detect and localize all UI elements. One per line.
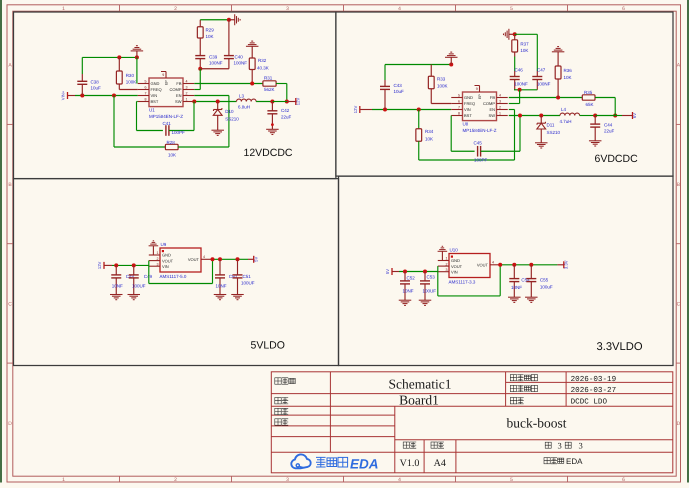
wire input rail (104, 264, 112, 266)
svg-text:100K: 100K (126, 80, 137, 85)
svg-text:10NF: 10NF (112, 284, 123, 289)
svg-text:EDA: EDA (350, 456, 379, 471)
ground above R32 (246, 41, 259, 46)
node output junction (613, 114, 617, 118)
net flag 12V output (295, 98, 297, 105)
svg-text:SS210: SS210 (225, 117, 239, 122)
wire output (595, 115, 615, 117)
label page 3 of 3 (545, 442, 551, 448)
ground under C44 (589, 141, 602, 146)
svg-text:4: 4 (492, 261, 494, 265)
svg-text:BST: BST (464, 113, 472, 118)
wire FB net (194, 83, 263, 85)
wire COMP net (194, 89, 200, 91)
capacitor C41 bootstrap (137, 101, 138, 103)
wire R34 to EN loop (419, 159, 515, 161)
svg-text:100uF: 100uF (540, 285, 553, 290)
svg-text:BST: BST (151, 99, 159, 104)
svg-text:C: C (677, 301, 681, 307)
svg-text:5V: 5V (385, 269, 390, 274)
ground sideways top (229, 14, 240, 25)
node C50 tap (218, 257, 222, 261)
node C53 tap (423, 270, 427, 274)
capacitor C52 (404, 272, 406, 281)
node GND bracket (135, 55, 139, 59)
svg-text:Schematic1: Schematic1 (389, 377, 452, 392)
wire SW net (194, 101, 236, 103)
svg-text:VIN: VIN (151, 93, 158, 98)
svg-text:6: 6 (622, 477, 625, 483)
ground above R36 (552, 47, 565, 52)
op-amp U8 MP1584EN-LF-Z (463, 92, 497, 121)
svg-text:D: D (8, 421, 12, 427)
svg-text:100UF: 100UF (132, 284, 146, 289)
node C45 tap (518, 114, 522, 118)
svg-text:65K: 65K (586, 102, 594, 107)
inductor L3 (237, 99, 257, 101)
svg-text:A4: A4 (434, 458, 446, 469)
svg-text:FREQ: FREQ (464, 101, 475, 106)
svg-text:R29: R29 (206, 28, 215, 33)
net flag VIN input (67, 92, 69, 99)
svg-text:VOUT: VOUT (188, 257, 200, 262)
capacitor C51 (237, 259, 239, 275)
capacitor C45 bootstrap (450, 116, 452, 152)
svg-text:2: 2 (174, 6, 177, 12)
svg-text:V1.0: V1.0 (400, 458, 420, 469)
svg-text:GND: GND (464, 95, 473, 100)
wire R29 top to gnd (200, 19, 229, 21)
node SW (192, 100, 196, 104)
svg-text:3.3V: 3.3V (563, 260, 568, 269)
ground under C55 (525, 297, 538, 302)
svg-text:3: 3 (579, 441, 583, 451)
svg-text:EN: EN (489, 107, 495, 112)
sheet area box bottom-right (339, 176, 674, 365)
svg-text:100NF: 100NF (514, 81, 528, 86)
svg-text:R34: R34 (425, 129, 434, 134)
node VIN junction C38 (80, 94, 84, 98)
svg-text:GND: GND (151, 81, 160, 86)
svg-text:C47: C47 (537, 68, 546, 73)
svg-text:C41: C41 (163, 121, 172, 126)
svg-text:C49: C49 (144, 274, 153, 279)
node R30 top (117, 55, 121, 59)
node C48 tap (114, 263, 118, 267)
capacitor C40 (228, 20, 230, 56)
svg-text:R28: R28 (167, 140, 176, 145)
svg-text:5: 5 (458, 94, 460, 98)
diode D10 SS210 (217, 102, 219, 110)
svg-text:SS210: SS210 (547, 130, 561, 135)
sheet area box top-right (336, 12, 673, 176)
svg-text:3: 3 (157, 262, 159, 266)
svg-text:2: 2 (446, 262, 448, 266)
ground under C53 (419, 300, 432, 305)
node D11 tap (539, 114, 543, 118)
svg-text:C43: C43 (394, 83, 403, 88)
svg-text:5VLDO: 5VLDO (251, 339, 285, 351)
capacitor C50 (219, 259, 221, 275)
wire FB net (509, 97, 583, 99)
svg-text:2: 2 (157, 257, 159, 261)
net flag 5V output (253, 256, 255, 263)
ground under C49 (128, 295, 141, 300)
svg-text:6.8uH: 6.8uH (238, 105, 250, 110)
svg-text:562K: 562K (264, 87, 275, 92)
wire GND pin drop (136, 57, 138, 83)
resistor R30 (118, 57, 120, 71)
net flag 12V input (359, 106, 361, 113)
node C52 tap (403, 270, 407, 274)
svg-text:3: 3 (286, 6, 289, 12)
svg-text:3: 3 (446, 268, 448, 272)
resistor R29 (199, 20, 201, 27)
resistor R31 (263, 81, 276, 86)
svg-text:8: 8 (458, 112, 460, 116)
svg-text:9: 9 (476, 87, 478, 91)
svg-text:6V: 6V (632, 113, 637, 118)
svg-text:2026-03-27: 2026-03-27 (571, 386, 617, 395)
wire VOUT feedback loop (437, 266, 439, 296)
title block outline (271, 372, 673, 473)
capacitor C55 (530, 265, 532, 279)
svg-text:10K: 10K (206, 34, 214, 39)
svg-text:4: 4 (203, 255, 205, 259)
svg-text:SW: SW (489, 113, 496, 118)
ground under C50 (214, 295, 227, 300)
svg-text:D: D (677, 421, 681, 427)
wire input rail (392, 271, 399, 273)
logo JLC EDA cloud (291, 454, 310, 468)
wire C46/C47 bottoms (514, 89, 537, 91)
label gengxin riqi (updated date) (510, 385, 537, 391)
net flag 5V input (391, 268, 393, 275)
svg-text:10NF: 10NF (403, 289, 414, 294)
svg-text:7: 7 (458, 106, 460, 110)
svg-text:EP: EP (478, 94, 482, 99)
svg-text:EP: EP (165, 80, 169, 85)
wire SW net (509, 115, 560, 117)
svg-text:C: C (8, 301, 12, 307)
label yuanlitu (schematic) (275, 378, 295, 384)
svg-text:R31: R31 (264, 76, 273, 81)
svg-text:4: 4 (186, 80, 188, 84)
svg-text:COMP: COMP (170, 87, 182, 92)
svg-text:C52: C52 (407, 276, 416, 281)
node C54 tap (512, 263, 516, 267)
svg-text:VOUT: VOUT (451, 264, 463, 269)
label banben (version) (403, 442, 416, 448)
capacitor C38 (81, 57, 83, 74)
svg-text:VOUT: VOUT (162, 258, 174, 263)
svg-text:7: 7 (145, 92, 147, 96)
node C42 tap (270, 100, 274, 104)
svg-text:4: 4 (398, 6, 401, 12)
svg-text:10K: 10K (168, 153, 176, 158)
svg-text:5V: 5V (253, 257, 258, 262)
svg-text:1: 1 (62, 6, 65, 12)
op-amp U10 AMS1117-3.3 (449, 254, 490, 278)
ground (earth) top-left (136, 51, 138, 58)
node R37 top (513, 32, 517, 36)
svg-text:VOUT: VOUT (477, 263, 489, 268)
svg-text:10NF: 10NF (511, 285, 522, 290)
left page edge strip (0, 0, 2, 483)
svg-text:10K: 10K (425, 137, 433, 142)
diode D11 SS210 (540, 116, 542, 124)
svg-text:C53: C53 (427, 275, 436, 280)
sheet area box bottom-left (14, 179, 339, 366)
svg-text:12V: 12V (295, 98, 300, 106)
svg-text:5: 5 (145, 80, 147, 84)
resistor R36 (555, 66, 561, 79)
op-amp U9 AMS1117-5.0 (160, 248, 201, 272)
svg-text:C55: C55 (540, 278, 549, 283)
resistor R35 (582, 95, 595, 100)
capacitor C48 (115, 265, 117, 275)
svg-text:C38: C38 (91, 80, 100, 85)
svg-text:VIN: VIN (162, 264, 169, 269)
ground under C52 (399, 300, 412, 305)
sheet area box top-left (14, 12, 336, 179)
svg-text:COMP: COMP (483, 101, 495, 106)
svg-text:C40: C40 (235, 55, 244, 60)
svg-text:U1: U1 (149, 108, 155, 113)
svg-text:12VDCDC: 12VDCDC (244, 147, 293, 159)
svg-text:5: 5 (510, 6, 513, 12)
capacitor C39 (195, 55, 205, 57)
capacitor C43 (384, 65, 386, 81)
svg-text:U10: U10 (450, 248, 459, 253)
svg-text:U8: U8 (463, 122, 469, 127)
wire output rail (500, 264, 557, 266)
svg-text:100NF: 100NF (537, 81, 551, 86)
svg-text:C46: C46 (515, 68, 524, 73)
svg-text:R30: R30 (126, 73, 135, 78)
svg-text:100UF: 100UF (423, 289, 437, 294)
resistor R34 (418, 110, 420, 129)
node C51 tap (236, 257, 240, 261)
right page edge strip (687, 0, 689, 483)
svg-text:10NF: 10NF (216, 284, 227, 289)
svg-text:R35: R35 (584, 90, 593, 95)
wire input rail (360, 109, 372, 111)
label shenyue (reviewed by) (275, 419, 288, 425)
svg-text:R36: R36 (564, 68, 573, 73)
capacitor C42 (271, 102, 273, 111)
svg-text:FB: FB (176, 81, 181, 86)
svg-text:6: 6 (458, 100, 460, 104)
svg-text:3: 3 (499, 100, 501, 104)
svg-text:DCDC LDO: DCDC LDO (571, 398, 608, 407)
svg-text:MP1584EN-LF-Z: MP1584EN-LF-Z (149, 114, 183, 119)
capacitor C47 (532, 76, 542, 78)
svg-text:3.3VLDO: 3.3VLDO (597, 341, 643, 353)
svg-text:1: 1 (62, 477, 65, 483)
label chicun (size) (431, 442, 444, 448)
svg-text:3: 3 (186, 86, 188, 90)
svg-text:EN: EN (176, 93, 182, 98)
svg-text:1: 1 (446, 257, 448, 261)
svg-text:100UF: 100UF (241, 280, 255, 285)
label banzi (board) (275, 398, 288, 404)
node comp drop (518, 88, 522, 92)
svg-text:R37: R37 (520, 42, 529, 47)
title block inner lines (329, 372, 331, 453)
wire COMP net (519, 90, 521, 104)
wire top gnd bracket (82, 56, 137, 58)
svg-text:12V: 12V (353, 106, 358, 114)
net flag 12V input (103, 262, 105, 269)
node COMP RC (198, 67, 202, 71)
node VIN junction R28 branch (112, 94, 116, 98)
ground (earth) top-center (450, 57, 452, 64)
svg-text:5: 5 (510, 477, 513, 483)
svg-text:SW: SW (175, 99, 182, 104)
logo JLC EDA text (316, 457, 348, 467)
ground under C54 (508, 297, 521, 302)
svg-text:4.7uH: 4.7uH (560, 119, 572, 124)
svg-text:FREQ: FREQ (151, 87, 162, 92)
node C49 tap (132, 263, 136, 267)
svg-text:40.3K: 40.3K (257, 66, 269, 71)
svg-text:D11: D11 (547, 123, 555, 128)
ground under C48 (110, 295, 123, 300)
svg-text:10K: 10K (564, 75, 572, 80)
svg-text:10uF: 10uF (91, 86, 102, 91)
svg-text:1: 1 (157, 251, 159, 255)
svg-text:MP1584EN-LF-Z: MP1584EN-LF-Z (463, 128, 497, 133)
svg-text:VIN: VIN (451, 269, 458, 274)
node C43 tap (383, 108, 387, 112)
svg-text:U9: U9 (161, 242, 167, 247)
ground under D11 (535, 143, 548, 148)
node FB/R32/R31 (250, 82, 254, 86)
svg-text:1: 1 (186, 98, 188, 102)
svg-text:1: 1 (499, 112, 501, 116)
resistor R33 (430, 65, 432, 77)
svg-text:L3: L3 (239, 94, 245, 99)
svg-text:C45: C45 (474, 141, 483, 146)
label tuye (sheet) (510, 398, 523, 404)
net flag 3.3V output (563, 261, 565, 268)
svg-text:AMS1117-3.3: AMS1117-3.3 (449, 280, 476, 285)
resistor R32 (249, 58, 255, 70)
svg-text:22uF: 22uF (604, 129, 615, 134)
svg-text:GND: GND (451, 258, 460, 263)
node C55 tap (529, 263, 533, 267)
inductor L4 (560, 113, 580, 115)
svg-text:8: 8 (145, 98, 147, 102)
svg-text:4: 4 (499, 94, 501, 98)
node C44 tap (593, 114, 597, 118)
svg-text:100NF: 100NF (209, 61, 223, 66)
capacitor C53 (424, 272, 426, 281)
svg-text:9: 9 (162, 73, 164, 77)
svg-text:L4: L4 (561, 107, 567, 112)
wire R37 to C47 top (515, 33, 538, 35)
svg-text:R32: R32 (258, 58, 267, 63)
wire C39-C40 bottom link (200, 68, 229, 70)
svg-text:D10: D10 (225, 109, 234, 114)
svg-text:100PF: 100PF (474, 158, 488, 163)
op-amp U1 MP1584EN-LF-Z (149, 78, 183, 107)
svg-text:2: 2 (174, 477, 177, 483)
svg-text:VIN+: VIN+ (61, 90, 66, 100)
svg-text:2: 2 (499, 106, 501, 110)
svg-text:buck-boost: buck-boost (507, 416, 567, 431)
ground under D10 (211, 130, 224, 135)
svg-text:10K: 10K (520, 48, 528, 53)
svg-text:C51: C51 (243, 274, 252, 279)
capacitor C54 (513, 265, 515, 279)
net flag 6V output (632, 112, 634, 119)
resistor R28 (113, 96, 115, 148)
svg-text:4: 4 (398, 477, 401, 483)
label chuangjian riqi (created date) (510, 375, 537, 381)
svg-text:6: 6 (145, 86, 147, 90)
svg-text:VIN: VIN (464, 107, 471, 112)
svg-text:22uF: 22uF (281, 115, 292, 120)
svg-text:Board1: Board1 (399, 392, 439, 407)
wire EN net (194, 95, 229, 97)
node output junction (285, 100, 289, 104)
node top gnd junction (227, 18, 231, 22)
capacitor C46 (510, 76, 520, 78)
svg-text:2026-03-19: 2026-03-19 (571, 375, 617, 384)
wire VIN rail (68, 95, 75, 97)
wire output (272, 101, 287, 103)
wire top gnd link (385, 64, 451, 66)
svg-text:C44: C44 (604, 123, 613, 128)
label huizhi (drawn by) (275, 408, 288, 414)
svg-text:C39: C39 (209, 55, 218, 60)
capacitor C44 (594, 116, 596, 125)
node R34 tap (417, 108, 421, 112)
node loop/output (211, 257, 215, 261)
ground under C51 (231, 295, 244, 300)
text JLC EDA (cell) (544, 458, 564, 464)
node C46/C47 drop crossing (556, 96, 560, 100)
svg-text:AMS1117-5.0: AMS1117-5.0 (160, 274, 187, 279)
svg-text:3: 3 (558, 441, 562, 451)
svg-text:100PF: 100PF (172, 130, 186, 135)
ground under C42 (266, 129, 279, 134)
wire VOUT feedback loop (148, 261, 150, 284)
svg-text:EDA: EDA (566, 457, 583, 466)
node loop/output (498, 263, 502, 267)
node D10 tap (216, 100, 220, 104)
svg-text:GND: GND (162, 253, 171, 258)
ground sideways for R37 (504, 29, 515, 40)
svg-text:2: 2 (186, 92, 188, 96)
node top gnd (449, 63, 453, 67)
svg-text:C42: C42 (281, 108, 290, 113)
svg-text:10uF: 10uF (394, 89, 405, 94)
svg-text:3: 3 (286, 477, 289, 483)
svg-text:100NF: 100NF (234, 61, 248, 66)
svg-text:FB: FB (490, 95, 495, 100)
svg-text:12V: 12V (97, 261, 102, 269)
svg-text:100K: 100K (437, 84, 448, 89)
svg-text:R33: R33 (437, 77, 446, 82)
wire output rail (213, 258, 249, 260)
resistor R37 (514, 34, 516, 40)
capacitor C49 (133, 265, 135, 275)
svg-text:6VDCDC: 6VDCDC (595, 153, 639, 165)
svg-text:6: 6 (622, 6, 625, 12)
